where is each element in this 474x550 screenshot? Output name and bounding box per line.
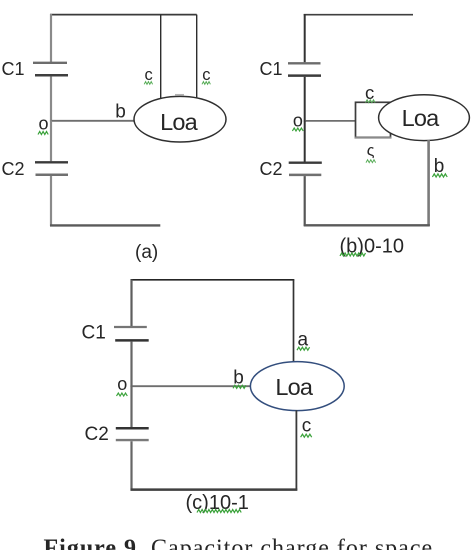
squiggle under (b) caption xyxy=(340,253,366,256)
svg-text:Loa: Loa xyxy=(402,105,441,131)
squiggle under c right (a) xyxy=(202,82,210,85)
svg-text:C2: C2 xyxy=(2,159,25,179)
capacitor C2 (c) plates xyxy=(116,428,149,440)
svg-text:o: o xyxy=(39,113,49,133)
load ellipse U-a xyxy=(134,96,226,142)
wire: (c) right vertical upper xyxy=(293,280,295,363)
wire: (b) left vertical C2 to bottom xyxy=(304,176,306,226)
capacitor C1 (b) plates xyxy=(288,63,321,75)
wire: (b) top horizontal xyxy=(304,14,413,16)
wire: (a) node o to b horizontal xyxy=(51,120,135,122)
wire: (a) left vertical upper (top to C1) xyxy=(50,14,52,62)
wire: (c) left vertical C1 to o xyxy=(130,342,132,387)
load ellipse U-b xyxy=(379,95,470,141)
wire: (c) bottom horizontal xyxy=(131,488,298,491)
small gray mark at load top (a) xyxy=(175,94,184,96)
wire: (a) vertical to load terminal c left xyxy=(160,15,162,99)
svg-text:Loa: Loa xyxy=(160,109,199,135)
wire: (a) bottom horizontal xyxy=(50,224,160,226)
svg-text:Loa: Loa xyxy=(275,374,314,400)
svg-text:b: b xyxy=(115,101,126,122)
squiggle under b (b) xyxy=(432,174,447,177)
wire: (b) left vertical o to C2 xyxy=(304,121,306,162)
wire: (c) left vertical upper xyxy=(130,280,132,327)
squiggle under o (a) xyxy=(38,132,48,135)
squiggle under b (c) xyxy=(233,385,246,388)
wire: (b) left vertical upper xyxy=(304,14,306,62)
squiggle under sigma (b) xyxy=(366,160,376,163)
svg-text:C1: C1 xyxy=(260,59,283,79)
squiggle under o (c) xyxy=(117,393,128,396)
box bottom gray edge (b) xyxy=(355,137,392,139)
switch box (b) xyxy=(356,102,391,137)
squiggle under c left (a) xyxy=(144,82,152,85)
wire: (b) right vertical from load xyxy=(427,140,430,226)
svg-text:C1: C1 xyxy=(82,323,106,344)
squiggle under o (b) xyxy=(292,128,303,131)
svg-text:Figure 9. Capacitor charge for: Figure 9. Capacitor charge for space xyxy=(44,536,434,550)
svg-text:o: o xyxy=(117,374,127,394)
svg-text:C2: C2 xyxy=(260,159,283,179)
squiggle under c (c) xyxy=(301,434,312,437)
wire: (c) right vertical lower xyxy=(295,410,297,490)
wire: (a) left vertical C2 to bottom xyxy=(50,176,52,226)
capacitor C1 (c) plates xyxy=(114,327,149,340)
capacitor C2 (a) plates xyxy=(35,162,68,174)
wire: (c) top horizontal xyxy=(131,279,295,281)
capacitor C2 (b) plates xyxy=(289,163,322,175)
svg-text:(a): (a) xyxy=(135,242,158,263)
wire: (c) left vertical o to C2 xyxy=(130,386,132,428)
svg-text:C1: C1 xyxy=(2,59,25,79)
wire: (b) bottom horizontal xyxy=(304,224,430,226)
squiggle under c (b) xyxy=(366,100,376,103)
svg-text:C2: C2 xyxy=(85,424,109,445)
svg-text:b: b xyxy=(434,156,445,177)
squiggle under caption (c) xyxy=(197,510,241,513)
svg-text:ς: ς xyxy=(367,143,375,160)
load ellipse U-c xyxy=(250,362,344,411)
svg-text:c: c xyxy=(365,82,374,103)
wire: (a) top horizontal xyxy=(50,14,197,16)
wire: (b) left vertical C1 to o xyxy=(304,77,306,122)
squiggle under a (c) xyxy=(297,347,310,350)
capacitor C1 (a) plates xyxy=(33,63,68,75)
wire: (c) left vertical C2 to bottom xyxy=(130,441,132,490)
wire: (a) left vertical C1 to node o xyxy=(50,76,52,121)
wire: (b) o to box horizontal xyxy=(305,120,356,122)
wire: (a) vertical to load terminal c right xyxy=(196,15,198,99)
wire: (c) o to b horizontal xyxy=(132,385,251,387)
wire: (a) left vertical o to C2 xyxy=(50,121,52,162)
